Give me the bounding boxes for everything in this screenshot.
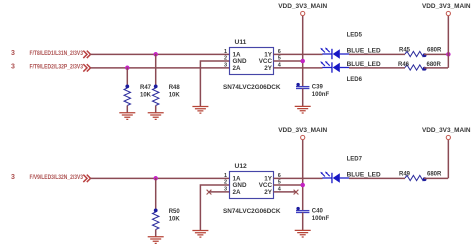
svg-text:3: 3 [224,62,227,68]
ground below R50 [148,237,164,244]
wire R45 to VDD right [424,53,448,55]
wire U11 pin2 GND stub [200,61,229,106]
svg-text:3: 3 [224,186,227,192]
svg-text:680R: 680R [427,62,442,68]
svg-text:VDD_3V3_MAIN: VDD_3V3_MAIN [422,3,471,10]
svg-text:C40: C40 [312,209,324,215]
wire U11 pin5 VCC to VDD [274,60,303,62]
ground U12 pin2 [192,231,208,238]
svg-text:10K: 10K [140,93,152,99]
wire VDD vertical to C40 [302,140,304,211]
svg-text:2A: 2A [233,189,242,196]
resistor R50 [153,209,159,230]
svg-text:U12: U12 [235,163,248,170]
svg-text:BLUE_LED: BLUE_LED [347,172,382,178]
svg-text:SN74LVC2G06DCK: SN74LVC2G06DCK [223,208,281,215]
svg-text:100nF: 100nF [312,216,330,222]
svg-text:2A: 2A [233,65,242,72]
svg-text:BLUE_LED: BLUE_LED [347,48,382,54]
resistor R46 [405,65,427,71]
wire R50 lead down [155,178,157,212]
wire port1 to U11 pin1 [90,53,229,55]
wire R47 bottom lead [126,106,128,113]
junction node VCC [300,59,305,64]
power symbol VDD circle bottom right [446,135,450,139]
junction node VDD right rail row A [446,52,451,57]
wire C39 to ground [302,89,304,107]
no connect X on U12 pin4 [294,190,299,195]
ground below C40 [295,230,311,237]
svg-text:F/T8/LED1/L31N_2/3V3: F/T8/LED1/L31N_2/3V3 [30,50,84,57]
wire R49 to VDD right rail [424,177,448,179]
svg-text:LED7: LED7 [347,157,363,163]
LED LED5 [320,48,349,60]
wire port2 to U11 pin3 [90,67,229,69]
svg-text:3: 3 [11,174,15,181]
no connect X on U12 pin3 [207,190,212,195]
capacitor C40 [296,207,309,213]
op-amp U12 body [230,172,274,199]
wire U11 pin6 to LED5 [274,53,323,55]
wire VDD right rail vertical [447,16,449,68]
power symbol VDD circle bottom middle [301,135,305,139]
ground below C39 [295,106,311,113]
ground below R47 [119,113,135,120]
svg-text:VDD_3V3_MAIN: VDD_3V3_MAIN [278,3,327,10]
wire VDD right rail vertical bottom [447,140,449,178]
power symbol VDD circle right [446,11,450,15]
svg-text:SN74LVC2G06DCK: SN74LVC2G06DCK [223,84,281,91]
LED LED6 [320,61,349,73]
wire R50 bottom lead [155,230,157,237]
resistor R48 [153,85,159,106]
svg-text:VDD_3V3_MAIN: VDD_3V3_MAIN [422,127,471,134]
power symbol VDD circle [301,11,305,15]
svg-text:R46: R46 [398,62,410,68]
wire U11 pin4 to LED6 [274,67,323,69]
svg-text:3: 3 [11,64,15,71]
wire VDD vertical to C39 [302,16,304,87]
op-amp U11 body [230,48,274,75]
wire R46 to VDD right rail [424,67,448,69]
svg-text:R47: R47 [140,85,152,91]
wire R47 lead down [126,68,128,89]
wire R48 lead down [155,54,157,88]
resistor R47 [124,85,130,106]
svg-text:2: 2 [224,180,227,186]
junction node R48 top [153,52,158,57]
svg-text:2: 2 [224,56,227,62]
svg-text:1: 1 [224,49,227,55]
wire port3 to U12 pin1 [90,177,229,179]
wire U12 pin4 stub [274,191,297,193]
svg-text:R45: R45 [399,48,411,54]
svg-text:R48: R48 [169,85,181,91]
wire LED5 to R45 [349,53,405,55]
svg-text:U11: U11 [235,39,247,46]
wire U12 pin3 stub [209,191,230,193]
svg-text:1: 1 [224,173,227,179]
wire U12 pin5 VCC to VDD [274,184,303,186]
wire U12 pin2 GND stub [200,185,229,230]
capacitor C39 [296,83,309,89]
svg-text:F/V9/LED3/L32N_2/3V3: F/V9/LED3/L32N_2/3V3 [30,174,84,181]
svg-text:R50: R50 [169,209,181,215]
wire LED7 to R49 [349,177,405,179]
svg-text:10K: 10K [169,217,181,223]
svg-text:R49: R49 [399,172,411,178]
ground below R48 [148,113,164,120]
LED LED7 [320,172,349,184]
resistor R45 [405,51,427,57]
svg-text:VDD_3V3_MAIN: VDD_3V3_MAIN [278,127,327,134]
wire C40 to ground [302,213,304,231]
junction node R50 top [153,176,158,181]
ground U11 pin2 [192,107,208,114]
svg-text:2Y: 2Y [264,65,273,72]
svg-text:LED6: LED6 [347,77,363,83]
svg-text:3: 3 [11,50,15,57]
wire U12 pin6 to LED7 [274,177,323,179]
svg-text:680R: 680R [427,48,442,54]
junction node R47 top [125,66,130,71]
svg-text:100nF: 100nF [312,92,330,98]
junction node VCC U12 [300,183,305,188]
svg-text:10K: 10K [169,93,181,99]
svg-text:C39: C39 [312,85,324,91]
resistor R49 [405,175,427,181]
svg-text:LED5: LED5 [347,33,363,39]
svg-text:F/T9/LED2/L32P_2/3V3: F/T9/LED2/L32P_2/3V3 [30,64,84,71]
wire R48 bottom lead [155,106,157,113]
svg-text:2Y: 2Y [264,189,273,196]
svg-text:680R: 680R [427,172,442,178]
wire LED6 to R46 [349,67,405,69]
